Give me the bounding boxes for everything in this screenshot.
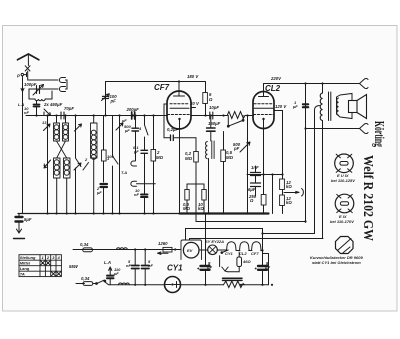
coupling jack top	[59, 78, 65, 83]
coil pair v205	[206, 141, 215, 214]
svg-text:2x 460µF: 2x 460µF	[43, 102, 63, 107]
jack top right	[360, 78, 369, 88]
lamp SY	[199, 245, 227, 255]
coil on wire1	[117, 248, 128, 250]
dial lamp EV box	[181, 240, 202, 260]
jack bottom right	[360, 123, 369, 133]
trimmer t77	[74, 163, 81, 170]
svg-text:220V: 220V	[270, 76, 282, 81]
wire v65	[66, 116, 67, 214]
svg-text:Welf R 2102 GW: Welf R 2102 GW	[360, 155, 375, 241]
wire	[28, 71, 58, 80]
svg-text:kΩ: kΩ	[286, 184, 292, 189]
resistor 0,5M	[221, 132, 226, 214]
cap 8uF left	[198, 214, 210, 285]
switch v144	[145, 116, 149, 151]
coil La loop	[29, 91, 52, 99]
svg-text:bei 110-170V: bei 110-170V	[330, 219, 354, 224]
pilot arrow L.A	[107, 267, 114, 285]
svg-text:5µF: 5µF	[24, 217, 32, 222]
svg-text:Stellung: Stellung	[20, 255, 36, 260]
wire v179 down	[179, 129, 181, 214]
wire	[29, 89, 58, 96]
svg-text:CY1: CY1	[167, 264, 183, 273]
svg-text:µF: µF	[292, 104, 298, 109]
speaker return wire	[306, 128, 360, 130]
svg-text:70pF: 70pF	[64, 106, 74, 111]
svg-text:µF: µF	[264, 265, 270, 270]
svg-text:TA: TA	[20, 272, 25, 277]
capacitor 100pF trimmer	[33, 85, 44, 96]
table	[19, 255, 61, 277]
svg-text:0,2µF: 0,2µF	[167, 127, 178, 132]
resistor 1260	[158, 247, 173, 254]
capacitor 1uF v305	[303, 104, 308, 107]
svg-text:200µF: 200µF	[126, 107, 140, 112]
TA jack 2	[131, 181, 155, 186]
main bus	[26, 115, 168, 117]
svg-text:MΩ: MΩ	[185, 156, 193, 161]
svg-text:120 V: 120 V	[275, 104, 287, 109]
svg-text:µF: µF	[124, 128, 130, 133]
svg-text:46Ω: 46Ω	[242, 259, 251, 264]
switch below zigzag	[227, 116, 244, 128]
svg-text:CF7: CF7	[154, 83, 170, 92]
svg-text:MΩ: MΩ	[156, 155, 164, 160]
svg-text:Körting: Körting	[371, 121, 386, 147]
svg-text:kΩ: kΩ	[198, 206, 204, 211]
svg-text:EV: EV	[187, 248, 193, 253]
hwire 221	[196, 221, 306, 223]
wire v75 + switch 2	[75, 116, 77, 214]
antenna switch	[25, 66, 30, 71]
grid box CF7	[164, 104, 170, 138]
wire v112 + switch	[112, 116, 114, 214]
coil L2	[63, 123, 69, 141]
svg-text:100: 100	[107, 154, 114, 159]
dial symbol 1	[335, 154, 354, 173]
svg-text:µF: µF	[206, 265, 212, 270]
resistor 250	[261, 195, 266, 214]
resistor 12k b	[280, 195, 285, 214]
wire v314	[315, 106, 320, 234]
ground bus	[18, 213, 180, 215]
hwire 233	[263, 233, 315, 235]
resistor 6k	[203, 82, 208, 116]
wire antenna down	[22, 76, 24, 214]
svg-text:P: P	[17, 74, 20, 79]
svg-text:bei 110-125V: bei 110-125V	[331, 178, 355, 183]
wire v56	[56, 116, 58, 214]
resistor 100	[102, 116, 107, 183]
bottom wire 1	[73, 249, 181, 251]
rail 180V	[106, 81, 206, 83]
resistor 12k a	[275, 111, 285, 196]
capacitor 200uF on bus	[132, 112, 135, 119]
pot arrow	[284, 189, 303, 197]
coil L4	[64, 158, 71, 178]
svg-text:pF: pF	[110, 99, 117, 104]
svg-text:160µF: 160µF	[208, 121, 221, 126]
svg-text:Ω: Ω	[208, 97, 213, 102]
caps 5nF x2	[132, 250, 140, 285]
wire	[66, 80, 68, 89]
capacitor 10nF	[34, 101, 40, 116]
tube CY1	[165, 277, 181, 293]
svg-text:nF: nF	[134, 192, 139, 197]
svg-text:L.A: L.A	[104, 260, 111, 265]
trimmer t47	[44, 124, 51, 131]
svg-text:6µF: 6µF	[248, 187, 256, 192]
svg-text:nF: nF	[24, 110, 29, 115]
hwire 238	[190, 238, 324, 240]
svg-text:kΩ: kΩ	[286, 200, 292, 205]
svg-text:CL2: CL2	[265, 84, 281, 93]
fuse 0,34 bottom	[83, 282, 96, 286]
antenna	[18, 54, 39, 66]
svg-text:55W: 55W	[69, 264, 79, 269]
switch 1	[44, 160, 51, 168]
heater switch	[221, 250, 228, 253]
trimmer t78 top	[75, 124, 82, 131]
wire v93	[93, 116, 95, 214]
wire v47	[47, 116, 49, 214]
svg-text:0,34: 0,34	[80, 242, 89, 247]
svg-text:CY1: CY1	[225, 251, 234, 256]
capacitor 0,1uF v144	[141, 150, 148, 194]
output transformer	[320, 84, 331, 239]
secondary loop + winding	[337, 94, 353, 119]
coil L3	[54, 158, 61, 178]
svg-text:100pF: 100pF	[24, 82, 37, 87]
svg-text:nF: nF	[148, 263, 153, 268]
svg-text:10pF: 10pF	[209, 105, 219, 110]
tube CF7	[167, 91, 191, 129]
svg-text:CL2: CL2	[239, 251, 247, 256]
svg-text:µF: µF	[121, 118, 127, 123]
wire v268	[263, 254, 269, 285]
caps 1nF 6uF chain	[251, 166, 261, 196]
svg-text:13: 13	[42, 120, 47, 125]
cap 8uF right	[255, 264, 267, 285]
shorting plug octagon	[336, 237, 354, 254]
switch mains	[96, 280, 106, 284]
bottom wire 2	[76, 282, 269, 285]
heater CY1	[227, 242, 237, 251]
rail 220V	[264, 83, 359, 85]
capacitor 10nF v144	[141, 195, 148, 214]
coil cross wires	[57, 141, 67, 158]
heater CF7	[252, 242, 262, 251]
svg-text:MΩ: MΩ	[183, 206, 191, 211]
tick 20V	[191, 107, 196, 109]
svg-text:Ω: Ω	[249, 198, 254, 203]
jack mid	[220, 256, 229, 272]
coil L1	[54, 123, 60, 141]
CL2 pins down	[263, 129, 265, 195]
coupling jack bottom	[59, 87, 65, 92]
capacitor 5uF	[16, 214, 23, 225]
hwire 228	[186, 228, 263, 230]
resistors 0,6M 10k	[185, 184, 189, 214]
connector P	[21, 73, 26, 77]
wire v305	[305, 84, 307, 223]
svg-text:statt CY1 bei Gleichstrom: statt CY1 bei Gleichstrom	[312, 260, 361, 265]
resistor 2M	[151, 116, 156, 214]
capacitor 500pF v135	[132, 116, 139, 161]
trimmer 2x460	[44, 109, 51, 116]
svg-text:T.A: T.A	[121, 170, 127, 175]
tube CL2	[253, 92, 274, 129]
trimmer on v105	[102, 82, 110, 116]
speaker	[349, 95, 367, 119]
svg-text:SY EY22A: SY EY22A	[205, 239, 224, 244]
svg-text:20 V: 20 V	[189, 101, 200, 106]
capacitor 70pF on bus	[61, 112, 64, 119]
wire v247	[247, 116, 249, 214]
fuse 0,34 top	[83, 248, 93, 252]
svg-text:µF: µF	[133, 149, 139, 154]
capacitor 2uF	[101, 184, 108, 214]
trimmer 500pF	[240, 142, 250, 152]
svg-text:1nF: 1nF	[251, 165, 259, 170]
svg-text:µF: µF	[113, 271, 119, 276]
capacitor 0,2uF	[171, 135, 197, 141]
svg-text:nF: nF	[126, 263, 131, 268]
wire v119 + trimmer	[119, 116, 121, 214]
svg-text:Lang: Lang	[20, 266, 30, 271]
svg-text:1260: 1260	[158, 241, 168, 246]
capacitor 160uF	[207, 116, 215, 142]
resistor zigzag	[227, 112, 245, 119]
svg-text:180 V: 180 V	[187, 74, 199, 79]
hwire 174	[247, 174, 282, 176]
choke	[223, 278, 245, 287]
antenna coil L5	[91, 123, 98, 159]
svg-text:0,34: 0,34	[81, 276, 90, 281]
coil on wire2	[119, 283, 130, 285]
svg-text:MΩ: MΩ	[226, 155, 234, 160]
dial symbol 2	[335, 194, 354, 213]
svg-text:pF: pF	[233, 146, 240, 151]
resistor 0,2M	[194, 138, 199, 214]
capacitor 10pF series	[210, 112, 213, 119]
TA jack 1	[131, 161, 137, 166]
ground	[14, 225, 25, 239]
svg-text:µF: µF	[96, 190, 102, 195]
heater CL2	[240, 242, 250, 251]
resistor 46	[228, 252, 242, 272]
switch s84	[83, 163, 89, 171]
svg-text:Mittel: Mittel	[20, 261, 31, 266]
svg-text:CF7: CF7	[251, 251, 259, 256]
wire v272	[272, 175, 274, 214]
